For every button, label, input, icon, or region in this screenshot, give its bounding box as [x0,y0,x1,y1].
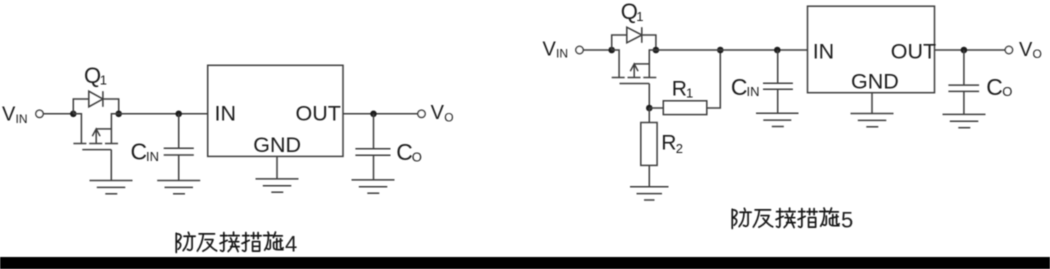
node I (CIN junction, right) [774,47,781,54]
label Q1 (left) [84,63,107,88]
svg-text:IN: IN [146,149,159,164]
svg-text:O: O [1002,84,1012,99]
wire U2 GND pin to ground [871,93,873,114]
ground (CIN, right) [756,113,799,126]
wire VIN terminal to node A [43,113,73,115]
wire Q1 gate to node G (right) [648,84,650,109]
node F (Q1 drain junction, right) [653,47,660,54]
regulator U2 box (right) [808,6,935,93]
node A (Q1 source junction) [70,111,77,118]
caption left: 防反接措施4 [176,232,297,257]
svg-text:GND: GND [253,133,301,157]
svg-text:C: C [731,74,748,100]
regulator U1 box (left) [208,65,343,156]
node C (CIN junction, left) [175,111,182,118]
body diode of Q1 (right) [627,27,642,43]
node H (R1 top junction) [717,47,724,54]
svg-text:OUT: OUT [891,39,936,63]
capacitor CIN (left) [164,114,194,181]
svg-text:4: 4 [285,232,297,257]
svg-text:O: O [412,150,422,165]
transistor Q1 PMOS (left) [73,114,118,150]
svg-text:2: 2 [676,141,683,156]
net label VIN (right) [543,38,569,60]
wire diode branch (left circuit) [73,99,118,114]
capacitor CO (right) [948,50,979,114]
wire node G to R1 [649,107,663,109]
caption right: 防反接措施5 [732,208,853,233]
svg-text:1: 1 [686,86,693,101]
ground (R2) [630,187,669,200]
svg-text:Q: Q [621,0,638,24]
svg-text:V: V [431,102,445,124]
label R1 [672,78,693,101]
svg-text:O: O [444,110,453,124]
label CIN (left) [131,139,160,165]
svg-text:R: R [661,131,676,154]
capacitor CO (left) [355,114,390,180]
svg-text:O: O [1033,47,1042,61]
bottom black bar [0,257,1050,269]
wire diode branch (right circuit) [612,35,656,50]
wire U1 GND pin to ground (left) [276,156,278,179]
svg-text:IN: IN [16,112,28,126]
svg-text:5: 5 [841,208,853,233]
input terminal (left circuit) [36,110,43,117]
svg-text:IN: IN [556,47,568,61]
ground (Q1 gate, left) [90,181,133,194]
svg-text:C: C [396,139,413,165]
input terminal (right circuit) [576,46,583,53]
ground (U1, left) [256,179,299,192]
svg-text:V: V [2,104,16,126]
wire node G to R2 [648,108,650,123]
output terminal (right circuit) [1005,46,1012,53]
net label VO (left) [431,102,454,125]
svg-text:V: V [543,38,557,60]
resistor R1 [663,101,707,115]
body diode of Q1 (left) [89,91,103,107]
net label VIN (left) [2,104,28,126]
transistor Q1 PMOS (right) [612,50,657,84]
output terminal (left circuit) [418,110,425,117]
svg-text:Q: Q [84,63,101,88]
svg-text:C: C [986,74,1003,100]
ground (U2, right) [851,114,894,127]
node D (CO junction, left) [370,111,377,118]
wire Q1 gate to ground (left) [110,150,112,181]
label CO (left) [396,139,422,165]
wire U1 OUT to VO terminal (left) [343,113,418,115]
svg-text:OUT: OUT [296,102,341,126]
label Q1 (right) [621,0,644,24]
label R2 [661,131,683,156]
svg-text:1: 1 [636,9,643,24]
svg-text:IN: IN [813,39,835,63]
net label VO (right) [1019,39,1042,61]
node B (Q1 drain junction) [115,111,122,118]
wire U2 OUT to VO terminal (right) [935,49,1006,51]
capacitor CIN (right) [763,50,793,113]
label CIN (right) [731,74,760,100]
ground (CO, left) [352,180,395,193]
svg-text:GND: GND [851,70,899,94]
svg-text:IN: IN [215,102,237,126]
label CO (right) [986,74,1012,100]
ground (CO, right) [943,114,986,127]
node J (CO junction, right) [961,47,968,54]
svg-text:C: C [131,139,148,165]
wire R1 to node H [707,50,721,108]
node G (gate/R1/R2 junction) [646,105,653,112]
ground (CIN, left) [157,181,200,194]
svg-text:V: V [1019,39,1033,61]
svg-text:IN: IN [747,84,760,99]
svg-text:R: R [672,78,687,101]
wire VIN terminal to node E [583,49,612,51]
wire node F to regulator IN (right) [656,49,808,51]
resistor R2 [641,123,657,166]
svg-text:1: 1 [100,72,107,87]
wire node B to regulator IN (left) [119,113,208,115]
node E (Q1 source junction, right) [608,47,615,54]
wire R2 to ground [648,165,650,186]
